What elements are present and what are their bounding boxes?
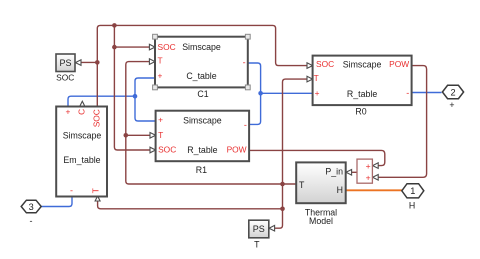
svg-text:PS: PS (253, 224, 265, 234)
svg-text:C1: C1 (197, 89, 208, 99)
svg-text:Simscape: Simscape (182, 42, 221, 52)
svg-text:Simscape: Simscape (63, 130, 102, 140)
svg-text:T: T (158, 130, 163, 140)
svg-text:-: - (244, 120, 247, 130)
svg-text:T: T (158, 55, 163, 65)
svg-text:R_table: R_table (347, 89, 377, 99)
svg-text:Model: Model (309, 216, 333, 226)
svg-text:-: - (243, 58, 246, 68)
svg-text:+: + (366, 173, 371, 183)
svg-text:-: - (406, 88, 409, 98)
svg-text:+: + (158, 114, 163, 124)
svg-text:SOC: SOC (56, 72, 74, 82)
svg-text:Em_table: Em_table (63, 155, 100, 165)
svg-text:C: C (77, 109, 87, 115)
svg-text:1: 1 (410, 186, 415, 196)
svg-text:T: T (254, 239, 260, 249)
svg-text:R_table: R_table (187, 145, 217, 155)
svg-text:POW: POW (389, 59, 409, 69)
svg-text:R1: R1 (196, 165, 207, 175)
svg-text:T: T (90, 188, 100, 193)
svg-text:R0: R0 (355, 107, 366, 117)
svg-text:+: + (449, 100, 454, 110)
svg-text:T: T (299, 180, 305, 190)
svg-text:POW: POW (227, 145, 247, 155)
svg-text:2: 2 (450, 87, 455, 97)
svg-text:P_in: P_in (325, 167, 343, 177)
svg-text:PS: PS (59, 58, 71, 68)
svg-text:+: + (158, 70, 163, 80)
svg-text:+: + (366, 161, 371, 171)
svg-text:H: H (409, 200, 415, 210)
svg-text:SOC: SOC (91, 109, 101, 127)
svg-text:SOC: SOC (316, 59, 334, 69)
svg-text:-: - (30, 216, 33, 226)
svg-text:+: + (315, 88, 320, 98)
svg-text:C_table: C_table (186, 71, 216, 81)
svg-text:+: + (65, 106, 70, 116)
svg-text:3: 3 (29, 202, 34, 212)
svg-text:SOC: SOC (158, 145, 176, 155)
svg-text:Simscape: Simscape (183, 116, 222, 126)
svg-text:H: H (337, 185, 343, 195)
svg-text:Simscape: Simscape (343, 59, 382, 69)
svg-text:-: - (70, 186, 73, 196)
svg-text:SOC: SOC (158, 42, 176, 52)
svg-text:T: T (314, 73, 319, 83)
